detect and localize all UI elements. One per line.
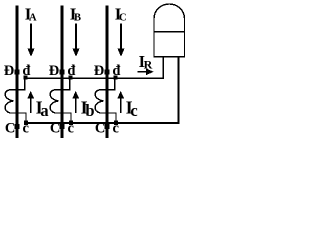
wire: relay left lead (top bus up to relay): [162, 56, 164, 79]
wire: d1 lead down to winding: [10, 79, 25, 90]
wire: winding bottom stub to c2 node: [55, 113, 71, 123]
terminal dot d3 (secondary start node): [113, 75, 117, 79]
wire: d3 lead down to winding: [100, 79, 115, 90]
relay KA body: [154, 4, 185, 57]
terminal dot d2 (secondary start node): [68, 75, 72, 79]
current arrow IB: [73, 24, 80, 57]
svg-text:C: C: [119, 13, 127, 24]
relay current arrow IR: [138, 68, 154, 75]
wire: d2 lead down to winding: [55, 79, 70, 90]
terminal dot D1 on primary: [15, 69, 20, 74]
svg-text:Đ: Đ: [4, 63, 14, 79]
svg-text:b: b: [85, 101, 94, 120]
phase C primary conductor: [106, 6, 109, 139]
svg-text:C: C: [5, 121, 15, 137]
terminal dot C2 on primary: [60, 124, 65, 129]
label IC: [115, 5, 127, 24]
wire: top bus (d terminals to relay): [23, 77, 163, 79]
svg-text:A: A: [29, 13, 37, 24]
label IB: [70, 5, 81, 24]
junction dot c2 on bottom bus: [69, 121, 73, 125]
secondary current arrow Ic: [117, 91, 124, 113]
svg-text:c: c: [130, 101, 137, 120]
junction dot c3 on bottom bus: [114, 121, 118, 125]
svg-text:B: B: [74, 13, 81, 24]
CT3 secondary winding: [95, 90, 103, 113]
svg-text:Đ: Đ: [94, 63, 104, 79]
relay divider line: [154, 31, 185, 33]
wire: relay right lead (down and to bottom bus): [178, 56, 180, 124]
phase A primary conductor: [16, 6, 19, 139]
wire: winding bottom stub to c1 node: [10, 113, 26, 123]
label IA: [25, 5, 37, 24]
terminal dot C1 on primary: [15, 124, 20, 129]
label Ic: [126, 98, 138, 120]
label Ib: [81, 98, 95, 120]
current arrow IC: [118, 24, 125, 57]
svg-text:Đ: Đ: [49, 63, 59, 79]
terminal dot C3 on primary: [105, 124, 110, 129]
terminal dot d1 (secondary start node): [23, 75, 27, 79]
label IR: [139, 52, 153, 72]
current arrow IA: [28, 24, 35, 57]
terminal dot D2 on primary: [60, 69, 65, 74]
terminal dot D3 on primary: [105, 69, 110, 74]
wire: winding bottom stub to c3 node: [100, 113, 116, 123]
CT2 secondary winding: [50, 90, 58, 113]
phase B primary conductor: [61, 6, 64, 139]
junction dot c1 on bottom bus: [24, 121, 28, 125]
secondary current arrow Ib: [72, 91, 79, 113]
CT1 secondary winding: [5, 90, 13, 113]
wire: bottom bus (c terminals to relay): [24, 122, 179, 124]
label Ia: [36, 98, 49, 120]
secondary current arrow Ia: [27, 91, 34, 113]
svg-text:a: a: [40, 101, 48, 120]
